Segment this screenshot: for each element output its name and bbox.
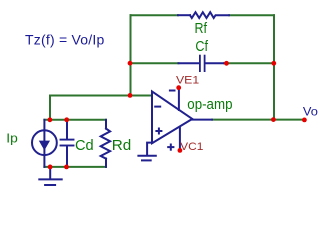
svg-text:op-amp: op-amp xyxy=(187,97,232,113)
svg-text:Rf: Rf xyxy=(195,21,208,37)
svg-text:Rd: Rd xyxy=(112,138,132,154)
svg-text:Tz(f) = Vo/Ip: Tz(f) = Vo/Ip xyxy=(25,32,105,48)
svg-text:Ip: Ip xyxy=(6,131,18,145)
svg-text:Cd: Cd xyxy=(75,138,94,154)
svg-text:Vo: Vo xyxy=(303,104,318,118)
svg-text:VC1: VC1 xyxy=(180,141,203,153)
svg-text:Cf: Cf xyxy=(195,39,208,55)
svg-text:VE1: VE1 xyxy=(176,75,199,87)
